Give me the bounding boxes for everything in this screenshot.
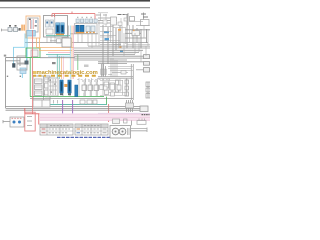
- junction knot verticals: [102, 64, 106, 77]
- orange dot 2: [119, 46, 121, 48]
- pilot valve P2: [50, 20, 54, 27]
- cyan tail wire: [21, 74, 23, 79]
- wire arrow left: [2, 29, 21, 32]
- mid valve box: [62, 38, 71, 47]
- table T1: [40, 124, 73, 135]
- cluster A drop wires: [47, 37, 55, 43]
- fusebox inner detail: [35, 78, 49, 98]
- orange highlight box: [26, 16, 40, 38]
- tick marks row: [44, 93, 84, 97]
- filter F1: [17, 56, 27, 63]
- right drop wires: [127, 64, 134, 100]
- pilot block: [48, 78, 58, 96]
- mini box row b1: [80, 100, 85, 104]
- connector J2: [14, 28, 18, 32]
- extra valve comps right: [105, 85, 122, 96]
- green wire long: [30, 96, 104, 98]
- table T1 text: [49, 126, 71, 133]
- top right text specks: [96, 14, 107, 16]
- purple wire 1: [62, 100, 64, 113]
- label marks: [141, 14, 148, 17]
- band connector c3: [137, 119, 146, 125]
- connector block R2: [144, 62, 150, 66]
- right mesh horizontals: [25, 30, 150, 43]
- solenoid base strip 2: [76, 32, 84, 34]
- connector J4: [141, 20, 150, 26]
- sensor chain S4: [146, 94, 150, 99]
- solenoid SV4: [80, 25, 84, 32]
- gray wire long: [30, 97, 133, 99]
- pump motor 1: [112, 128, 119, 135]
- corner marks: [4, 55, 6, 57]
- orange pin row: [33, 75, 46, 77]
- ecu box: [33, 100, 50, 107]
- red harness bracket: [52, 12, 95, 21]
- solenoid SV1: [56, 23, 60, 34]
- valve V1: [86, 26, 90, 32]
- top toolbar edge: [0, 0, 150, 2]
- pump ticks: [128, 128, 130, 135]
- table T2: [75, 124, 108, 135]
- teal return wire: [46, 35, 70, 37]
- relay K1: [28, 18, 38, 32]
- mini box row b2: [87, 100, 92, 104]
- band note text: [142, 114, 150, 116]
- mid wires: [106, 88, 112, 96]
- connector speck row: [77, 17, 92, 18]
- mesh extras: [100, 44, 146, 74]
- end connector: [140, 106, 148, 112]
- table T2 text: [84, 126, 107, 133]
- tank box outline: [6, 58, 34, 109]
- red terminal marks: [12, 117, 23, 119]
- green feed wire: [29, 58, 31, 97]
- cooler small: [20, 68, 26, 74]
- relay K2: [130, 17, 135, 22]
- teal wire: [46, 53, 70, 55]
- mid small box: [57, 39, 62, 43]
- wire drop: [124, 13, 128, 26]
- orange label bars: [21, 25, 23, 31]
- yellow tag: [32, 71, 37, 74]
- manifold lower wire: [70, 33, 98, 35]
- wire bundle drop right: [108, 58, 133, 77]
- diode chain D2: [125, 86, 129, 90]
- relay K3: [132, 31, 140, 36]
- table T1 red entries: [42, 129, 46, 133]
- orange wire upper: [37, 38, 75, 47]
- tick pair: [54, 100, 58, 104]
- mid comp M3: [116, 80, 119, 92]
- orange connector mark: [118, 29, 121, 31]
- bottom bus lines: [6, 107, 141, 111]
- valve row V3: [82, 85, 87, 91]
- junction knot block: [101, 69, 107, 75]
- fuse box: [33, 76, 50, 100]
- solenoid SV2: [61, 23, 65, 34]
- valve V2: [91, 26, 95, 32]
- red drop left: [38, 114, 40, 125]
- valve pair extra 2: [104, 86, 108, 90]
- valve pair extra: [100, 85, 104, 90]
- blue sensor smear 3: [120, 50, 123, 52]
- valve block box U1: [44, 16, 68, 38]
- connector J1: [8, 28, 12, 32]
- valve row extra density: [77, 78, 110, 96]
- lead wire: [50, 40, 57, 42]
- sensor S1: [12, 63, 15, 67]
- right bundle block: [126, 103, 134, 108]
- band connector c1: [113, 119, 120, 124]
- right bundle verticals: [127, 100, 133, 112]
- wire stub: [143, 13, 145, 20]
- green link wire: [106, 97, 108, 105]
- pump motor 2: [119, 128, 126, 135]
- green drop wire: [77, 54, 79, 70]
- diode chain D1: [125, 80, 129, 84]
- label specks row: [82, 80, 98, 82]
- cooler core: [27, 31, 36, 37]
- mid-right mesh lower: [100, 78, 126, 96]
- red box labels: [27, 117, 32, 126]
- sensor chain S3: [146, 88, 150, 92]
- valve stems: [84, 82, 96, 97]
- pilot valve P1: [46, 20, 50, 27]
- pilot block lines: [49, 79, 57, 95]
- right mesh verticals: [103, 14, 147, 76]
- red highlight box: [25, 112, 35, 131]
- connector row under bracket: [76, 19, 97, 23]
- mini box row b3: [93, 100, 97, 104]
- solenoid base strip: [56, 34, 64, 36]
- red stub: [24, 108, 26, 114]
- solenoid SV7: [75, 85, 78, 97]
- cyan hose path: [14, 34, 26, 65]
- pink band: [40, 113, 150, 120]
- pump leads: [131, 128, 148, 133]
- cyan branch wire: [48, 55, 70, 57]
- orange wire lower: [40, 38, 73, 50]
- mid comp M2: [110, 83, 115, 90]
- orange dot: [133, 30, 135, 31]
- band wire: [131, 121, 133, 126]
- filter F2: [17, 64, 27, 70]
- pump symbol inside: [31, 50, 38, 57]
- diode chain D3: [125, 92, 129, 96]
- solenoid SV6: [68, 80, 71, 95]
- cyan drop wire: [25, 36, 28, 60]
- wire bundle verticals: [62, 26, 74, 80]
- gray cloud label: [84, 65, 89, 68]
- page rule: [0, 7, 150, 9]
- table T2 colored entries: [77, 129, 81, 133]
- solenoid SV5: [60, 80, 63, 95]
- purple wire 2: [72, 100, 74, 113]
- manifold drop wires: [78, 34, 96, 48]
- connector block R1: [144, 55, 150, 59]
- caption text: [57, 136, 122, 138]
- orange coupler: [64, 84, 67, 87]
- red link wire: [25, 113, 40, 115]
- gauge block: [46, 29, 53, 34]
- blue sensor smear 2: [105, 38, 110, 41]
- orange pin dots: [86, 31, 95, 33]
- right sensor chain wire: [147, 82, 149, 98]
- solenoid SV3: [76, 25, 80, 32]
- orange pin row 2: [51, 75, 97, 77]
- top-right bus wires: [98, 18, 117, 23]
- pink band lines: [40, 114, 150, 120]
- small relay mid right: [121, 71, 126, 75]
- manifold box U2: [75, 24, 98, 34]
- terminal T1: [13, 121, 16, 124]
- lead wire r3: [136, 69, 144, 71]
- pilot specks: [46, 22, 52, 24]
- node dot A: [7, 76, 8, 77]
- fine mesh wires top right: [99, 21, 150, 56]
- connector specks: [9, 25, 21, 31]
- pink wire: [48, 51, 71, 53]
- sensor chain S2: [146, 82, 150, 87]
- wire segment: [40, 57, 75, 59]
- lower bus pair: [98, 77, 133, 79]
- connector block R3: [144, 68, 150, 72]
- junction box TB1: [111, 17, 117, 25]
- top right extra boxes: [103, 18, 127, 26]
- mid comp M1: [104, 82, 109, 88]
- valve row V5: [94, 85, 99, 91]
- red feed wire: [32, 30, 34, 114]
- terminal T2: [18, 121, 21, 124]
- teal wire long: [42, 103, 107, 105]
- battery box: [10, 117, 24, 127]
- red drop wire: [108, 104, 110, 122]
- battery lead: [3, 120, 10, 123]
- teal drop wires: [57, 54, 59, 79]
- lavender band: [98, 113, 150, 116]
- blue sensor smear 1: [104, 31, 109, 33]
- node dot B: [20, 76, 21, 77]
- mid-right bus horizontals: [74, 46, 150, 64]
- dark plug: [52, 62, 56, 64]
- band connector c2: [124, 119, 128, 123]
- check valve CV1: [25, 61, 29, 65]
- top right extra mesh: [98, 13, 126, 44]
- valve row V4: [88, 85, 93, 91]
- cluster A divider: [54, 16, 56, 38]
- green highlight box: [26, 48, 40, 58]
- pilot block specks: [50, 80, 56, 93]
- label text: [118, 14, 126, 16]
- pump box: [110, 126, 131, 139]
